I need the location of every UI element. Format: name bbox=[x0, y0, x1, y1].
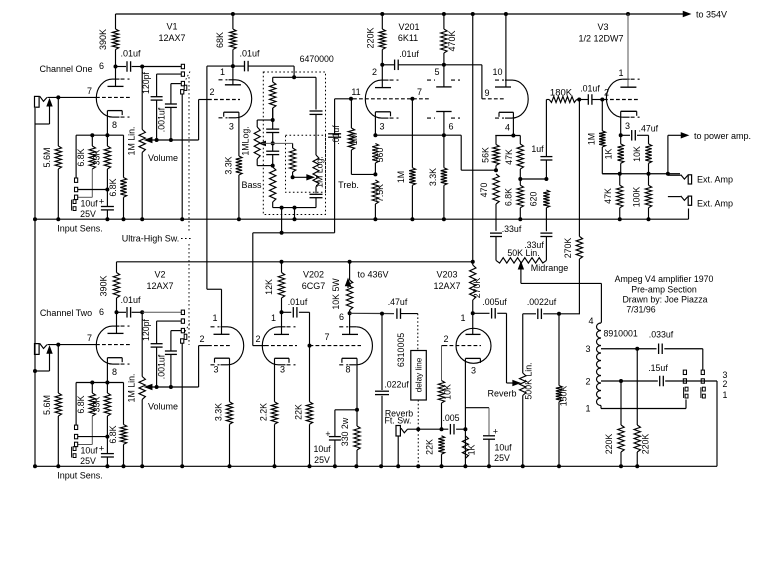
resistor 330 2W bbox=[356, 410, 358, 426]
node 6 V1a plate bbox=[114, 65, 118, 69]
svg-text:9: 9 bbox=[484, 88, 489, 98]
svg-text:Ext. Amp: Ext. Amp bbox=[697, 175, 733, 185]
V202a cathode pin3 bbox=[275, 357, 290, 359]
resistor 100K V3 out bbox=[648, 174, 650, 186]
reverb transformer 8910001 winding bbox=[597, 323, 602, 406]
ext amp jack 2 bbox=[668, 196, 681, 198]
svg-text:12K: 12K bbox=[264, 279, 274, 295]
wire: to reverb pot wiper bbox=[506, 313, 508, 383]
capacitor 10uf 25V ch1 bbox=[101, 206, 114, 208]
resistor 270K (feedback) bbox=[576, 236, 582, 259]
svg-text:Volume: Volume bbox=[148, 153, 178, 163]
svg-text:4: 4 bbox=[588, 316, 593, 326]
resistor 12K V202a plate bbox=[281, 262, 283, 273]
ultra-high switch ch2 contacts bbox=[181, 310, 184, 314]
triode V3 envelope bbox=[606, 79, 622, 117]
wire: dotted shielded to delay line bbox=[417, 314, 419, 351]
tone mid resistor bbox=[292, 143, 294, 148]
potentiometer Bass 1MLog bbox=[257, 119, 273, 121]
svg-text:390K: 390K bbox=[98, 29, 108, 50]
wire: B+ supply rail to 354V bbox=[116, 13, 684, 15]
resistor 68K ch1 bbox=[232, 14, 234, 29]
wire: volume wiper ch2 bbox=[147, 386, 199, 388]
capacitor .01uf ch1 coupling bbox=[116, 66, 127, 68]
potentiometer 500K Lin reverb bbox=[522, 314, 524, 373]
V202a grid pin2 bbox=[253, 345, 265, 347]
svg-text:7: 7 bbox=[87, 86, 92, 96]
svg-text:2: 2 bbox=[255, 334, 260, 344]
svg-text:1M: 1M bbox=[396, 171, 406, 183]
resistor 2.2K V202a cathode bbox=[271, 402, 277, 425]
potentiometer 1M Lin volume ch2 bbox=[141, 312, 143, 376]
svg-text:8: 8 bbox=[345, 365, 350, 375]
capacitor .001uf ch1 bbox=[170, 84, 172, 104]
tone resistor lower left bbox=[270, 167, 276, 202]
capacitor .47uf reverb drive bbox=[396, 308, 398, 319]
svg-text:.01uf: .01uf bbox=[399, 49, 419, 59]
triode V202a envelope bbox=[262, 327, 278, 365]
svg-text:1M Lin.: 1M Lin. bbox=[127, 374, 137, 403]
svg-text:3: 3 bbox=[213, 365, 218, 375]
V201b cathode pin6 bbox=[436, 111, 451, 113]
wire: B+ drop to lower stages bbox=[472, 14, 474, 262]
capacitor 10uf 25V V203 bbox=[483, 435, 495, 437]
switch contact A wire bbox=[683, 379, 686, 383]
svg-text:to 354V: to 354V bbox=[696, 10, 727, 20]
svg-text:150K: 150K bbox=[559, 386, 569, 407]
V2b grid pin2 bbox=[208, 345, 232, 347]
wire: tone output run bbox=[253, 232, 335, 234]
svg-text:33K: 33K bbox=[92, 397, 102, 413]
capacitor .01uf ch2 coupling bbox=[117, 311, 127, 313]
V202b grid pin7 bbox=[310, 345, 362, 347]
svg-text:6: 6 bbox=[99, 61, 104, 71]
wire: wiper riser to V2b grid bbox=[198, 346, 200, 387]
capacitor .022uf bbox=[381, 314, 383, 390]
triode V201c envelope bbox=[512, 80, 528, 118]
resistor 10K V3 bbox=[648, 135, 650, 144]
wire: tone bottom to ground bus bbox=[294, 208, 296, 220]
svg-text:Reverb: Reverb bbox=[487, 389, 516, 399]
svg-text:10uf: 10uf bbox=[494, 443, 512, 453]
node V3 cathode bbox=[619, 133, 623, 137]
svg-text:Volume: Volume bbox=[148, 402, 178, 412]
svg-text:220K: 220K bbox=[366, 27, 376, 48]
resistor 56K bbox=[495, 136, 497, 145]
svg-text:delay line: delay line bbox=[415, 357, 424, 392]
wire: ch1 cathode network rail bbox=[76, 134, 123, 136]
svg-text:Ext. Amp: Ext. Amp bbox=[697, 199, 733, 209]
input sens switch ch2 pole bbox=[73, 447, 76, 451]
wire: ch1 grid wire pin7 bbox=[47, 96, 96, 98]
wire: ch2 cathode network rail bbox=[76, 382, 123, 384]
svg-text:120pf: 120pf bbox=[141, 318, 151, 341]
resistor 10K 5W V202b plate bbox=[349, 262, 351, 280]
svg-text:470: 470 bbox=[479, 183, 489, 198]
svg-text:+: + bbox=[493, 427, 498, 437]
svg-text:10uf: 10uf bbox=[80, 199, 98, 209]
svg-text:5.6M: 5.6M bbox=[42, 147, 52, 167]
resistor 5.6M ch2 bbox=[57, 345, 59, 393]
ultra-high switch ch1 pole bbox=[181, 90, 184, 94]
V201a plate bbox=[381, 65, 383, 88]
node V201 t1 plate pin2 bbox=[380, 63, 384, 67]
svg-text:10uf: 10uf bbox=[80, 446, 98, 456]
wire: to ultra-high switch contact 1 bbox=[142, 66, 181, 68]
svg-text:270K: 270K bbox=[472, 278, 482, 299]
svg-text:56K: 56K bbox=[481, 147, 491, 163]
svg-text:.01uf: .01uf bbox=[120, 49, 141, 59]
svg-text:12AX7: 12AX7 bbox=[158, 33, 185, 43]
svg-text:Bass: Bass bbox=[241, 180, 262, 190]
resistor 150K bbox=[558, 314, 560, 386]
resistor 47K bbox=[519, 136, 521, 145]
node V202a plate pin1 bbox=[280, 310, 284, 314]
wire: bass wiper bbox=[262, 142, 293, 144]
svg-text:Drawn by: Joe Piazza: Drawn by: Joe Piazza bbox=[622, 295, 707, 305]
node 180K junction bbox=[577, 98, 581, 102]
wire: ch2 switch to ground bbox=[181, 343, 183, 466]
svg-text:Treb.: Treb. bbox=[338, 180, 359, 190]
resistor 390K ch1 plate load bbox=[115, 14, 117, 29]
svg-text:25V: 25V bbox=[80, 456, 96, 466]
node 6 V2a plate bbox=[115, 310, 119, 314]
resistor 1K zigzag bbox=[462, 436, 468, 459]
wire: cathode to 10uf branch bbox=[465, 407, 489, 409]
V202b cathode pin8 bbox=[342, 357, 357, 359]
svg-text:6310005: 6310005 bbox=[396, 333, 406, 367]
svg-text:1K: 1K bbox=[604, 148, 614, 159]
svg-text:+: + bbox=[99, 444, 105, 455]
svg-text:8: 8 bbox=[112, 120, 117, 130]
svg-text:2: 2 bbox=[723, 379, 728, 389]
triode V2a envelope bbox=[96, 326, 112, 364]
svg-text:10K: 10K bbox=[632, 146, 642, 162]
wire: volume wiper ch1 bbox=[147, 139, 199, 141]
svg-text:100K: 100K bbox=[632, 187, 642, 208]
tube V203 envelope bbox=[456, 328, 491, 363]
svg-text:470K: 470K bbox=[447, 30, 457, 51]
svg-text:1: 1 bbox=[618, 68, 623, 78]
svg-text:11: 11 bbox=[351, 87, 360, 97]
svg-text:.15uf: .15uf bbox=[648, 363, 668, 373]
input sens switch ch2 contacts bbox=[75, 383, 77, 426]
svg-text:220K: 220K bbox=[604, 434, 614, 455]
resistor 470 bbox=[493, 174, 499, 204]
wire: V202b cathode node bbox=[355, 408, 359, 412]
capacitor .01uf V201 input bbox=[334, 137, 336, 233]
wire: terminal 3 bbox=[601, 348, 657, 350]
node dots on B+ rail bbox=[231, 12, 235, 16]
resistor 33K ch2 bbox=[106, 383, 108, 394]
svg-text:7: 7 bbox=[417, 87, 422, 97]
svg-text:.01uf: .01uf bbox=[331, 125, 341, 145]
svg-text:V203: V203 bbox=[436, 270, 457, 280]
V201c cathode pin4 bbox=[499, 111, 513, 113]
svg-text:to 436V: to 436V bbox=[357, 270, 388, 280]
wire: t2 plate to t3 grid pin9 bbox=[444, 64, 482, 66]
svg-text:.33uf: .33uf bbox=[502, 224, 522, 234]
V1b grid pin2 bbox=[208, 99, 240, 101]
resistor 3.3K V201b cathode bbox=[443, 135, 445, 168]
wire: 33K to 10uf ch2 bbox=[106, 416, 108, 453]
tone capacitor bass lower bbox=[266, 150, 279, 152]
V201b plate bbox=[443, 65, 445, 87]
potentiometer 50K Lin midrange bbox=[496, 258, 546, 263]
capacitor 120pf ch2 bbox=[156, 321, 158, 344]
wire: to power amp bbox=[667, 135, 669, 173]
svg-text:6.8K: 6.8K bbox=[504, 188, 514, 206]
capacitor 1uf bbox=[545, 100, 547, 157]
delay line box 6310005 bbox=[411, 351, 427, 401]
svg-text:1: 1 bbox=[460, 313, 465, 323]
wire: ch2 grid wire pin7 bbox=[47, 344, 96, 346]
svg-text:10K: 10K bbox=[443, 384, 453, 400]
arrow to 354V bbox=[683, 12, 690, 17]
svg-text:2: 2 bbox=[199, 334, 204, 344]
svg-text:7: 7 bbox=[324, 332, 329, 342]
capacitor .33uf right bbox=[540, 232, 552, 234]
svg-text:330 2w: 330 2w bbox=[340, 417, 350, 446]
V201a cathode pin3 bbox=[375, 111, 390, 113]
svg-text:3.3K: 3.3K bbox=[428, 168, 438, 186]
resistor 47K V3 out bbox=[619, 174, 621, 186]
V2b plate pin1 bbox=[221, 289, 223, 334]
svg-text:6: 6 bbox=[448, 122, 453, 132]
svg-text:25V: 25V bbox=[314, 455, 330, 465]
node V203 plate pin1 bbox=[471, 311, 475, 315]
wire: ultra-high switch to ground bbox=[181, 94, 183, 219]
svg-text:6: 6 bbox=[339, 312, 344, 322]
capacitor .33uf left bbox=[490, 232, 502, 234]
ultra-high switch ch1 contacts bbox=[181, 64, 184, 68]
switch pole A bbox=[685, 387, 688, 391]
resistor 6.8K ch2 (a) bbox=[91, 383, 93, 394]
svg-text:3: 3 bbox=[625, 121, 630, 131]
tone resistor upper left bbox=[272, 77, 274, 82]
switch contact A upper bbox=[683, 370, 686, 374]
svg-text:.01uf: .01uf bbox=[580, 84, 600, 94]
svg-text:500K Lin.: 500K Lin. bbox=[524, 362, 534, 399]
wire: into tone module bbox=[293, 66, 295, 77]
svg-text:6470000: 6470000 bbox=[300, 54, 334, 64]
svg-text:12AX7: 12AX7 bbox=[146, 281, 173, 291]
resistor 1M V3 grid bbox=[601, 100, 603, 131]
tone capacitor bass upper bbox=[266, 128, 279, 130]
V202b plate bbox=[349, 313, 351, 334]
svg-text:.01uf: .01uf bbox=[239, 49, 260, 59]
svg-text:6K11: 6K11 bbox=[398, 33, 418, 43]
svg-text:10: 10 bbox=[492, 67, 502, 77]
resistor 560 V201 cathode bbox=[372, 144, 378, 164]
input sens switch ch1 pole bbox=[73, 200, 76, 204]
wire: V203 cathode chain bbox=[464, 358, 466, 466]
wire: V203 grid to 10K bbox=[442, 345, 444, 347]
capacitor .01uf V201 interstage bbox=[382, 64, 394, 66]
svg-text:33K: 33K bbox=[92, 150, 102, 166]
svg-text:2: 2 bbox=[443, 334, 448, 344]
svg-text:3: 3 bbox=[471, 366, 476, 376]
svg-text:.033uf: .033uf bbox=[649, 330, 674, 340]
wire: bottom ground bus bbox=[35, 465, 717, 467]
input jack J2 channel two bbox=[35, 344, 40, 355]
V1a grid dashes bbox=[96, 96, 130, 98]
V201 grid line pins 11/7 bbox=[353, 98, 431, 100]
ultra-high switch ch2 pole bbox=[181, 339, 184, 343]
svg-text:620: 620 bbox=[529, 192, 539, 207]
capacitor .001uf ch2 bbox=[170, 331, 172, 351]
resistor 390K ch2 bbox=[116, 262, 118, 273]
wire: midrange wiper to reverb transformer bbox=[520, 267, 522, 284]
switch contact B upper bbox=[701, 370, 704, 374]
capacitor .47uf V3 out bbox=[621, 134, 630, 136]
svg-text:Midrange: Midrange bbox=[531, 263, 569, 273]
ext amp jack 1 bbox=[668, 174, 681, 176]
svg-text:22K: 22K bbox=[294, 404, 304, 420]
V201 envelope dashes middle bbox=[427, 79, 435, 81]
svg-text:10uf: 10uf bbox=[313, 444, 331, 454]
svg-text:47K: 47K bbox=[603, 188, 613, 204]
wire: V201 cathode bus bbox=[375, 134, 461, 136]
capacitor 10uf 25V V202b bbox=[334, 410, 336, 437]
wire: jack tip arrow loop ch2 bbox=[49, 350, 51, 371]
wire: switch to bottom bus bbox=[716, 381, 718, 466]
svg-text:.005: .005 bbox=[442, 413, 459, 423]
V201c grid dashes bbox=[482, 98, 505, 100]
wire: terminal 1 bbox=[600, 406, 602, 409]
svg-text:6.8K: 6.8K bbox=[108, 178, 118, 196]
resistor 270K V203 plate bbox=[472, 262, 474, 265]
svg-text:Pre-amp Section: Pre-amp Section bbox=[631, 285, 697, 295]
svg-text:1: 1 bbox=[585, 404, 590, 414]
svg-text:390K: 390K bbox=[99, 275, 109, 296]
triode V2b envelope bbox=[228, 327, 244, 365]
svg-text:2: 2 bbox=[372, 67, 377, 77]
wire: cathode chain to 56K bbox=[460, 135, 462, 170]
svg-text:50K Lin.: 50K Lin. bbox=[507, 248, 539, 258]
svg-text:220K: 220K bbox=[641, 434, 651, 455]
resistor 220K left bbox=[620, 381, 622, 425]
svg-text:7/31/96: 7/31/96 bbox=[626, 305, 655, 315]
svg-text:47K: 47K bbox=[504, 149, 514, 165]
capacitor .01uf V1b output bbox=[233, 65, 245, 67]
svg-text:V3: V3 bbox=[597, 22, 608, 32]
node V202b plate pin6 bbox=[348, 311, 352, 315]
svg-text:8910001: 8910001 bbox=[604, 329, 638, 339]
svg-text:1: 1 bbox=[271, 313, 276, 323]
V1b cathode pin3 bbox=[224, 111, 239, 113]
svg-text:560: 560 bbox=[375, 148, 385, 163]
svg-text:12AX7: 12AX7 bbox=[433, 281, 460, 291]
svg-text:3: 3 bbox=[280, 365, 285, 375]
capacitor .01uf V3 input bbox=[579, 99, 588, 101]
resistor 1K V3 bbox=[620, 135, 622, 144]
V1b plate bbox=[232, 66, 234, 85]
resistor 3.3K ch1 cathode bbox=[238, 112, 240, 156]
resistor 180K bbox=[546, 99, 549, 101]
wire: V202b plate output bbox=[350, 312, 394, 314]
capacitor .15uf bbox=[659, 376, 661, 387]
wire: feedback line 270K bbox=[578, 100, 580, 237]
svg-text:22K: 22K bbox=[425, 439, 435, 455]
capacitor 10uf 25V ch2 bbox=[101, 453, 114, 455]
capacitor .005uf reverb out bbox=[473, 312, 490, 314]
wire: dotted from delay line to footswitch bbox=[417, 400, 419, 466]
svg-text:1M: 1M bbox=[349, 133, 359, 145]
wire: jack tip arrow loop ch1 bbox=[49, 103, 51, 124]
svg-text:Channel Two: Channel Two bbox=[40, 308, 92, 318]
svg-text:1M Log.: 1M Log. bbox=[315, 156, 325, 188]
svg-text:6CG7: 6CG7 bbox=[302, 281, 326, 291]
resistor 5.6M ch1 bbox=[57, 97, 59, 146]
svg-text:.001uf: .001uf bbox=[157, 107, 167, 132]
wire: V3 output node bbox=[602, 173, 680, 175]
svg-text:2: 2 bbox=[585, 377, 590, 387]
capacitor .033uf bbox=[658, 344, 660, 355]
svg-text:.001uf: .001uf bbox=[157, 354, 167, 379]
resistor 22K footswitch bbox=[438, 436, 444, 454]
tone module outer dotted box bbox=[263, 72, 325, 215]
wire: to V202b grid bbox=[309, 312, 311, 345]
V3 plate pin1 bbox=[627, 14, 629, 87]
svg-text:8: 8 bbox=[112, 367, 117, 377]
svg-text:Ultra-High Sw.: Ultra-High Sw. bbox=[122, 234, 180, 244]
svg-text:1M Lin.: 1M Lin. bbox=[127, 127, 137, 156]
svg-text:5: 5 bbox=[434, 67, 439, 77]
input jack J1 channel one bbox=[35, 96, 40, 107]
wire: terminal 2 bbox=[601, 380, 658, 382]
svg-text:1M: 1M bbox=[587, 133, 597, 145]
resistor 220K V201 bbox=[381, 14, 383, 29]
V3 grid dashes bbox=[604, 99, 640, 101]
resistor 6.8K V201 bbox=[519, 179, 521, 185]
node V201 t2 plate pin5 bbox=[442, 63, 446, 67]
svg-text:Input Sens.: Input Sens. bbox=[57, 224, 103, 234]
svg-text:7: 7 bbox=[87, 333, 92, 343]
wire: tone module top bus bbox=[273, 76, 316, 78]
svg-text:6.8K: 6.8K bbox=[108, 425, 118, 443]
wire: bus to jack sleeve bbox=[688, 209, 690, 220]
wire: to switch contact top bbox=[702, 349, 704, 370]
svg-text:.022uf: .022uf bbox=[384, 380, 409, 390]
V2b cathode pin3 bbox=[215, 357, 230, 359]
svg-text:Channel One: Channel One bbox=[39, 64, 92, 74]
resistor 7.5K V201 cathode bbox=[372, 180, 378, 204]
svg-text:1uf: 1uf bbox=[531, 144, 544, 154]
V1a cathode pin8 bbox=[107, 110, 122, 112]
svg-text:+: + bbox=[325, 429, 330, 439]
resistor 6.8K ch1 (a) bbox=[91, 135, 93, 146]
resistor 220K right bbox=[636, 349, 638, 425]
wire: switch row bbox=[683, 380, 717, 382]
svg-text:.47uf: .47uf bbox=[639, 124, 659, 134]
svg-text:Ampeg V4 amplifier 1970: Ampeg V4 amplifier 1970 bbox=[615, 274, 714, 284]
capacitor .01uf V202 interstage bbox=[282, 311, 292, 313]
resistor 10K reverb bbox=[438, 381, 444, 404]
potentiometer 1M Lin volume ch1 bbox=[141, 67, 143, 130]
V202a plate bbox=[281, 312, 283, 334]
V2a plate bbox=[116, 312, 118, 333]
svg-text:68K: 68K bbox=[215, 32, 225, 48]
wire: to ultra-high contact ch2 bbox=[142, 311, 181, 313]
wire: to treble wiper arrow bbox=[293, 176, 309, 178]
V1a plate bbox=[115, 67, 117, 87]
reverb footswitch jack bbox=[396, 426, 400, 437]
wire: wiper riser to V1b grid bbox=[198, 100, 200, 141]
resistor 1M V201 grid bbox=[350, 99, 352, 128]
wire: ch2 B+ feed bbox=[117, 261, 473, 263]
svg-text:+: + bbox=[99, 197, 105, 208]
